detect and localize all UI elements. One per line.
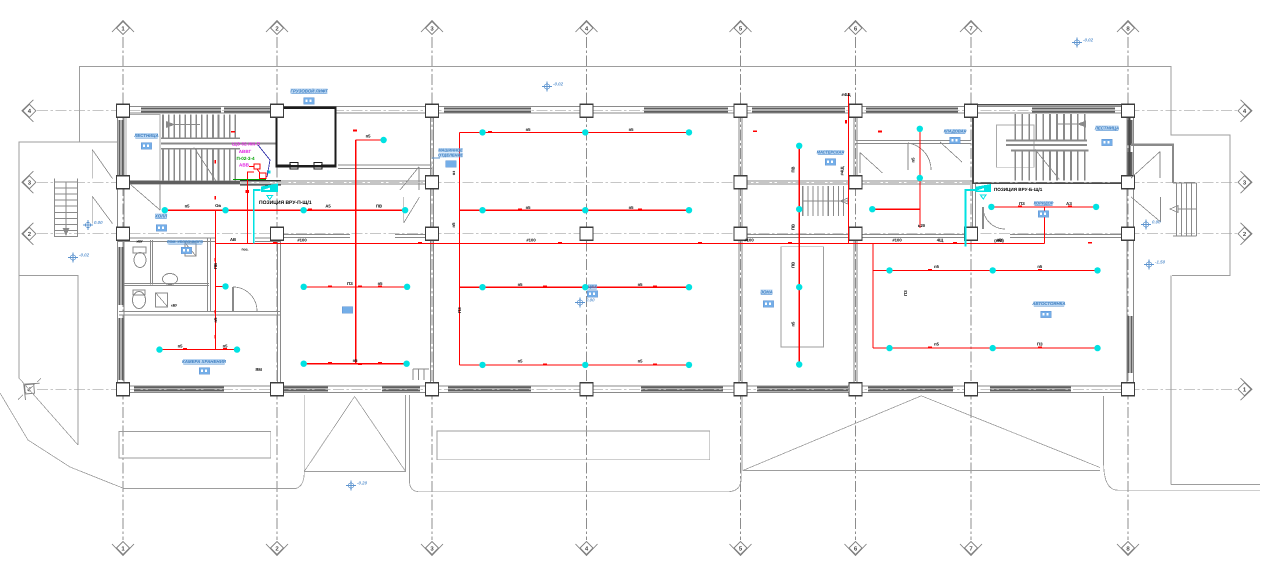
wire room2-3 branch2: [304, 363, 407, 365]
svg-text:#4Щ: #4Щ: [840, 166, 845, 176]
interior wall bathroom mid-v: [149, 240, 151, 285]
svg-text:п5: п5: [629, 127, 635, 132]
grid marker 4 bottom: [576, 542, 598, 556]
interior wall corridor B right2: [1010, 233, 1128, 235]
green conductor: [233, 178, 266, 180]
svg-text:ЛЕСТНИЦА: ЛЕСТНИЦА: [1094, 126, 1119, 131]
svg-text:п5: п5: [185, 204, 191, 209]
wire room2-3 feeder: [355, 140, 357, 364]
window bands bottom wall: [134, 387, 224, 389]
interior wall corridor B mid2: [395, 233, 432, 235]
grid marker 2 bottom: [266, 542, 288, 556]
grid axis 4 (vertical): [586, 37, 588, 540]
stairwell 1 flights (top-left): [126, 115, 160, 181]
svg-text:ь20: ь20: [918, 223, 926, 228]
svg-text:0.00: 0.00: [94, 220, 103, 225]
wire stub dot 225: [215, 285, 223, 287]
canopy rectangle middle: [437, 431, 710, 460]
svg-text:п5: п5: [518, 282, 524, 287]
grid marker 1 bottom: [112, 542, 134, 556]
svg-text:АЗ: АЗ: [1066, 201, 1072, 206]
svg-text:п5: п5: [526, 127, 532, 132]
door swing corridor right: [983, 207, 1005, 229]
bathroom fixtures: [133, 292, 146, 309]
interior wall pump room: [338, 164, 432, 166]
interior wall grid5: [738, 113, 740, 386]
svg-text:(#Ю): (#Ю): [994, 238, 1004, 243]
svg-text:п5: п5: [790, 321, 795, 327]
svg-text:-1.50: -1.50: [1155, 260, 1166, 265]
exterior stair left: [55, 181, 78, 183]
svg-text:ЛЕСТНИЦА: ЛЕСТНИЦА: [133, 133, 158, 138]
grid marker row 4 right: [1238, 100, 1252, 122]
svg-text:п5: п5: [178, 344, 184, 349]
elevation mark left2: [70, 255, 75, 260]
grid marker row 2 left: [22, 223, 36, 245]
driveway band: [410, 395, 742, 492]
wire panel drop: [247, 172, 254, 243]
stairwell 2 flights (top-right): [973, 105, 1130, 183]
svg-text:ПОЗИЦИЯ ВРУ-Б-Щ/1: ПОЗИЦИЯ ВРУ-Б-Щ/1: [994, 187, 1043, 192]
svg-text:ПВ: ПВ: [790, 224, 795, 230]
svg-text:ПВ: ПВ: [376, 204, 382, 209]
svg-text:АВ: АВ: [230, 237, 236, 242]
svg-text:АВТОСТОЯНКА: АВТОСТОЯНКА: [1031, 301, 1065, 306]
svg-text:п5: п5: [213, 317, 218, 323]
svg-text:ЦЕХ: ЦЕХ: [588, 284, 598, 289]
grid marker 4 top: [576, 21, 598, 35]
svg-text:хВУ: хВУ: [136, 240, 143, 244]
interior wall below elevator: [281, 180, 432, 182]
svg-text:ПЗ: ПЗ: [1019, 201, 1025, 206]
svg-text:п5: п5: [629, 205, 635, 210]
interior wall corridor B left: [118, 237, 216, 239]
big canopy gable: [743, 395, 1100, 471]
svg-text:-0.20: -0.20: [357, 481, 368, 486]
grid marker 1 top: [112, 21, 134, 35]
svg-text:п5: п5: [1037, 264, 1043, 269]
site boundary bottom-left slope: [0, 393, 296, 489]
wire rooms6-7 feeder: [919, 127, 921, 229]
exterior walls (double line): [118, 106, 1134, 392]
grid marker 6 top: [845, 21, 867, 35]
room label LESTNITsA left: [135, 133, 158, 138]
wire main feeder: [215, 242, 1044, 244]
svg-text:п5: п5: [934, 342, 940, 347]
svg-text:П-02-3-4: П-02-3-4: [236, 156, 255, 161]
cyan mark at panel: [267, 170, 271, 173]
grid axis 6 (vertical): [855, 37, 857, 540]
window bands right wall: [1128, 120, 1130, 145]
interior wall grid6 upper: [853, 113, 855, 188]
svg-text:хВУ: хВУ: [171, 304, 178, 308]
grid marker row A left (rotated): [17, 376, 42, 402]
grid marker row 1 right: [1238, 378, 1252, 400]
svg-text:ПЗ: ПЗ: [457, 307, 462, 313]
elevator shaft: [277, 108, 336, 167]
interior wall corridor V left: [118, 180, 282, 182]
svg-text:ПЗ: ПЗ: [1037, 342, 1043, 347]
interior wall bathroom right: [206, 238, 208, 312]
room label MASHINNOE: [439, 148, 463, 153]
grid axis G (horizontal): [37, 110, 1237, 112]
svg-text:ПВ: ПВ: [213, 263, 218, 269]
wire parking feeder: [872, 243, 874, 348]
columns at grid intersections: [117, 104, 130, 117]
svg-text:-0.02: -0.02: [79, 253, 90, 258]
VRU horn right: [976, 184, 992, 192]
svg-text:п5: п5: [518, 358, 524, 363]
door swings rooms 6-7: [859, 153, 861, 173]
svg-text:ПВ: ПВ: [790, 262, 795, 268]
svg-text:Ов: Ов: [215, 203, 221, 208]
svg-text:п5: п5: [366, 134, 372, 139]
grid marker row 2 right: [1238, 223, 1252, 245]
wire hall branch4: [459, 364, 689, 366]
grid axis 5 (vertical): [740, 37, 742, 540]
left wing outline: [19, 142, 117, 378]
svg-text:КОРИДОР: КОРИДОР: [1034, 201, 1054, 206]
interior wall grid6 lower: [853, 228, 855, 386]
panel SHCHE (red): [254, 164, 260, 169]
svg-text:-0.02: -0.02: [1083, 38, 1094, 43]
room label LESTNITsA right: [1095, 126, 1118, 131]
elevation mark top4: [544, 84, 549, 89]
svg-text:А5: А5: [325, 204, 331, 209]
svg-text:ПЗ: ПЗ: [903, 290, 908, 296]
window bands left wall: [119, 120, 121, 176]
svg-text:п5: п5: [451, 222, 456, 228]
grid marker 8 top: [1117, 21, 1139, 35]
interior wall koridor left: [971, 184, 973, 233]
wire parking branch2: [873, 347, 1098, 349]
svg-text:-0.02: -0.02: [553, 82, 564, 87]
room label MASTERSKAYA: [818, 150, 844, 155]
wire hall branch3: [459, 286, 689, 288]
svg-text:п5: п5: [223, 344, 229, 349]
interior wall rooms6-7 divider: [856, 139, 972, 141]
grid marker 3 bottom: [421, 542, 443, 556]
wire room2-3 branch1: [304, 286, 407, 288]
grid marker 8 bottom: [1117, 542, 1139, 556]
door swings near grid3 wall: [418, 167, 420, 190]
svg-text:ЩЭ-02-ЖК-П: ЩЭ-02-ЖК-П: [232, 142, 260, 147]
room label KLADOVAYA: [944, 129, 965, 134]
elevation mark hall: [577, 300, 582, 305]
grid marker 5 bottom: [730, 542, 752, 556]
interior wall storeroom right: [276, 235, 278, 387]
internal stair corridor 5-6: [802, 186, 804, 216]
canopy rectangle left: [119, 432, 271, 459]
svg-text:АВВГ: АВВГ: [239, 149, 252, 154]
wire ticks: [231, 131, 235, 133]
grid axis B (horizontal): [37, 233, 1237, 235]
elevation mark right1: [1143, 222, 1148, 227]
door swing storeroom: [233, 287, 257, 311]
wire storeroom branch: [160, 349, 238, 351]
door swing hall left: [130, 184, 160, 210]
elevation mark porch: [348, 483, 353, 488]
svg-text:ПОЗИЦИЯ ВРУ-П-Щ/1: ПОЗИЦИЯ ВРУ-П-Щ/1: [259, 200, 312, 206]
grid axis 2 (vertical): [276, 37, 278, 540]
svg-text:4Щ: 4Щ: [937, 238, 944, 243]
entrance porch gable: [304, 395, 405, 471]
svg-text:п5: п5: [638, 358, 644, 363]
svg-text:ОТДЕЛЕНИЕ: ОТДЕЛЕНИЕ: [438, 153, 463, 158]
window bands top wall: [141, 108, 221, 110]
interior wall grid3: [429, 113, 431, 386]
room label KAMERA: [183, 359, 225, 364]
svg-text:п5: п5: [638, 282, 644, 287]
svg-text:п5: п5: [526, 205, 532, 210]
grid marker row 3 right: [1238, 171, 1252, 193]
svg-text:ПЗ: ПЗ: [347, 281, 353, 286]
wire hall feeder: [458, 132, 460, 365]
svg-text:#4Щ: #4Щ: [842, 92, 852, 97]
grid marker 2 top: [266, 21, 288, 35]
small steps hall corner: [412, 369, 414, 380]
exterior stair right: [1131, 145, 1173, 183]
svg-text:п5: п5: [353, 358, 359, 363]
interior wall bathroom mid-h: [124, 282, 209, 284]
room label KHOLL: [155, 214, 167, 219]
grid marker 6 bottom: [845, 542, 867, 556]
svg-text:0.00: 0.00: [1152, 220, 1161, 225]
svg-text:0.00: 0.00: [586, 298, 595, 303]
svg-text:п5: п5: [378, 281, 384, 286]
VRU horn left: [261, 184, 278, 193]
wire parking branch1: [873, 269, 1098, 271]
inner rect room5-6: [781, 247, 824, 347]
wire room2-3 stub top: [356, 139, 381, 141]
luminaire dots: [156, 126, 1100, 368]
grid axis 1 (vertical): [122, 37, 124, 540]
wire room5-6 feeder: [798, 144, 800, 365]
room label KORIDOR: [1034, 201, 1053, 206]
left porch door swings: [92, 150, 112, 179]
grid axis 3 (vertical): [431, 37, 433, 540]
svg-text:АВВ: АВВ: [239, 162, 250, 167]
svg-text:п5: п5: [911, 157, 916, 163]
wire corridor branch left: [165, 209, 405, 211]
svg-text:ХОЛЛ: ХОЛЛ: [154, 214, 168, 219]
grid marker row 3 left: [22, 171, 36, 193]
interior wall corridor B mid: [283, 233, 350, 235]
svg-text:#100: #100: [892, 238, 902, 243]
svg-text:#100: #100: [526, 238, 536, 243]
svg-text:КАМЕРА ХРАНЕНИЯ: КАМЕРА ХРАНЕНИЯ: [182, 359, 227, 364]
elevation mark right2: [1146, 262, 1151, 267]
svg-text:ГРУЗОВОЙ ЛИФТ: ГРУЗОВОЙ ЛИФТ: [290, 89, 328, 94]
interior wall corridor V right: [741, 180, 974, 182]
svg-text:поз.: поз.: [241, 248, 248, 252]
room label AVTOSTOYANKA: [1033, 301, 1064, 306]
interior wall corridor B left2: [255, 237, 281, 239]
site boundary (top/right): [80, 67, 1230, 276]
svg-text:КЛАДОВАЯ: КЛАДОВАЯ: [944, 129, 967, 134]
grid marker 7 bottom: [960, 542, 982, 556]
elevation mark left1: [85, 222, 90, 227]
room label GRUZOVOY LIFT: [291, 89, 328, 94]
room label UBORICHN: [168, 240, 203, 245]
wire hall branch1: [459, 131, 689, 133]
VRU riser left: [254, 190, 261, 243]
room label TsEKh: [588, 284, 597, 289]
wire supply riser grid6: [848, 93, 850, 243]
svg-text:#100: #100: [744, 238, 754, 243]
right wall door swings: [1131, 152, 1160, 178]
grid marker 3 top: [421, 21, 443, 35]
svg-text:ЯМ: ЯМ: [255, 367, 262, 372]
grid axis A (horizontal): [37, 388, 1237, 390]
room label ZONA: [760, 290, 772, 295]
VRU riser right: [966, 190, 976, 247]
svg-text:МАСТЕРСКАЯ: МАСТЕРСКАЯ: [817, 150, 845, 155]
grid axis 8 (vertical): [1127, 37, 1129, 540]
navy leader: [258, 145, 270, 177]
grid axis 7 (vertical): [970, 37, 972, 540]
grid axis V (horizontal): [37, 181, 1237, 183]
svg-text:ПОМ. УБОРОЧНОГО: ПОМ. УБОРОЧНОГО: [167, 240, 203, 244]
grid marker 7 top: [960, 21, 982, 35]
grid marker row 4 left: [22, 100, 36, 122]
wire corridor right drop: [1044, 207, 1046, 244]
elevation mark topright: [1074, 40, 1079, 45]
interior wall storeroom top: [119, 311, 281, 313]
svg-text:п5: п5: [934, 264, 940, 269]
wire drop storeroom: [214, 210, 216, 349]
wire corridor right branch: [991, 206, 1096, 208]
interior wall corridor B right: [741, 233, 974, 235]
wire hall branch2: [459, 209, 689, 211]
room box storeroom2: [342, 307, 353, 314]
svg-text:оз: оз: [451, 171, 456, 176]
wire rooms6-7 branch: [872, 208, 920, 210]
svg-text:ЗОНА: ЗОНА: [760, 290, 772, 295]
svg-text:#100: #100: [297, 238, 307, 243]
grid marker 5 top: [730, 21, 752, 35]
svg-text:ПВ: ПВ: [790, 166, 795, 172]
